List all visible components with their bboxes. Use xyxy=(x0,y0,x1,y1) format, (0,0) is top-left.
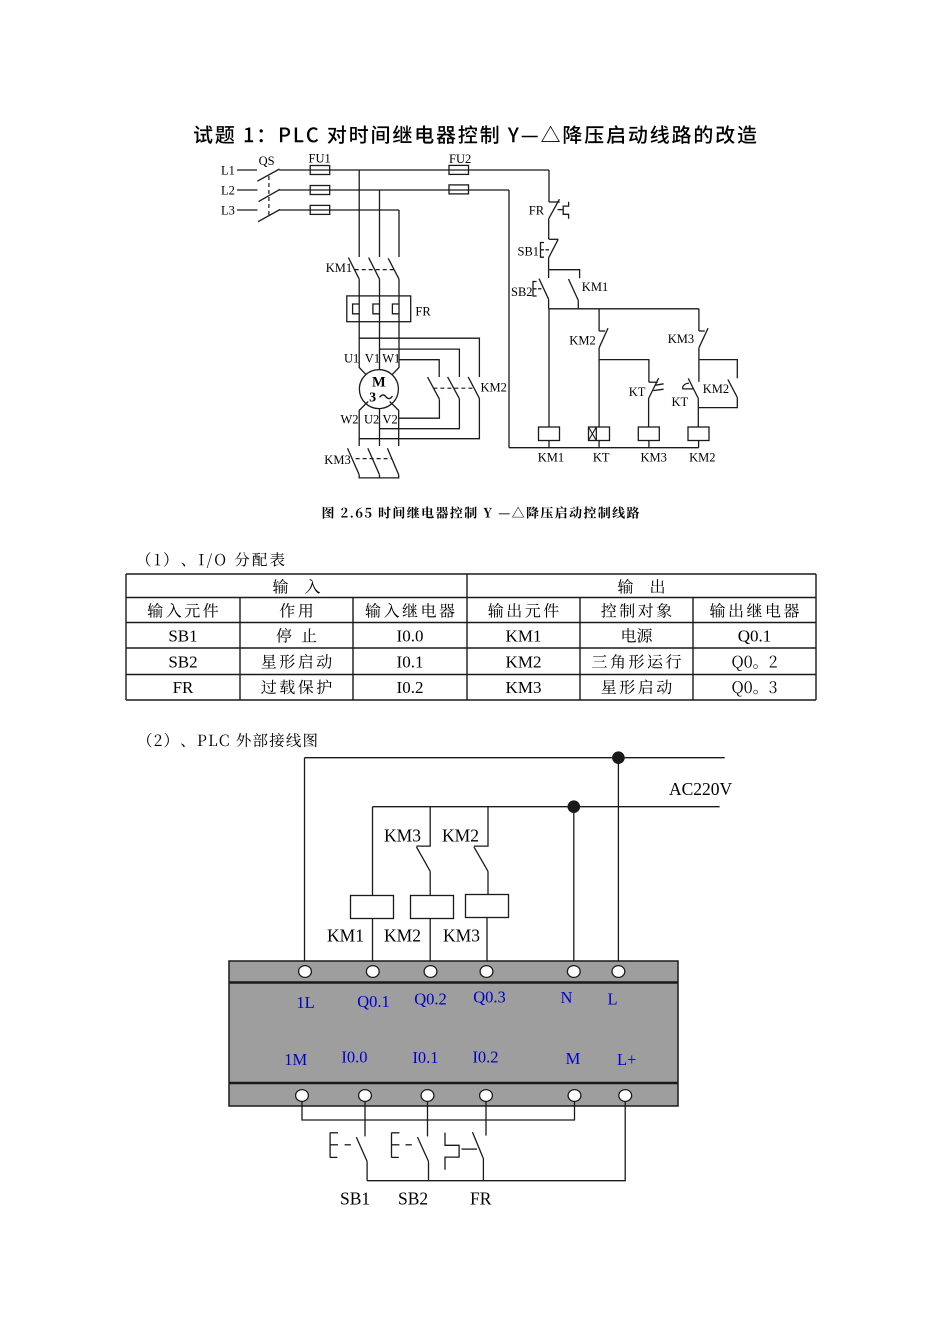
contactor KM1 main contact 3 xyxy=(388,258,399,279)
contactor KM2 delta contact right xyxy=(468,377,479,399)
wire U1 to KM2 right contact xyxy=(359,338,479,377)
wire KM2 middle contact to U2 xyxy=(380,399,460,429)
wire KM2 coil to rail xyxy=(698,441,700,448)
start button SB2 lead xyxy=(548,270,550,278)
wire L2 drop to KM1 xyxy=(379,190,381,257)
wire V1 to KM2 middle contact xyxy=(380,349,460,377)
overload FR input blade xyxy=(473,1132,484,1158)
svg-text:KT: KT xyxy=(672,395,689,409)
svg-text:SB2: SB2 xyxy=(511,285,533,299)
wire I0.0 lead xyxy=(364,1101,366,1136)
wire V2 out of motor xyxy=(390,401,399,446)
time relay KT delay mark 1 xyxy=(656,384,664,385)
wire W1 to KM2 left contact xyxy=(399,360,439,377)
button SB1 link dash xyxy=(345,1144,351,1146)
svg-text:L3: L3 xyxy=(221,203,235,217)
svg-text:KM3: KM3 xyxy=(384,826,421,846)
PLC top terminal 1 xyxy=(299,966,312,978)
wire KM3 NC down xyxy=(698,348,700,382)
svg-text:1L: 1L xyxy=(296,993,314,1012)
svg-text:KM1: KM1 xyxy=(326,261,352,275)
wire I0.2 lead xyxy=(485,1101,487,1136)
wire KM2 coil to Q0.2 xyxy=(429,919,431,967)
wire junction to KM1 aux xyxy=(549,270,580,279)
svg-text:KM1: KM1 xyxy=(582,280,608,294)
start button SB2 actuator xyxy=(533,282,537,297)
svg-text:I0.2: I0.2 xyxy=(472,1048,498,1067)
wire SB2 to rail xyxy=(548,299,550,309)
wire AC N line xyxy=(373,806,720,808)
wire L3 to QS xyxy=(237,209,258,211)
fuse FU1 phase L2 xyxy=(310,186,330,195)
wire control hot drop xyxy=(548,170,550,202)
wire KM1 to FR phase3 xyxy=(398,279,400,345)
svg-text:3: 3 xyxy=(369,391,376,406)
table cell r3c2 xyxy=(261,679,331,694)
svg-text:U1: U1 xyxy=(344,352,359,366)
table header output xyxy=(618,579,664,594)
svg-text:KM2: KM2 xyxy=(689,451,715,465)
wire W2 out of motor xyxy=(359,401,368,446)
svg-text:KM2: KM2 xyxy=(442,826,479,846)
table cell r3c5 xyxy=(601,679,671,694)
fuse FU1 phase L3 xyxy=(310,205,330,214)
wire KT coil to rail xyxy=(598,441,600,448)
stop button SB1 tick xyxy=(549,238,558,240)
interlock KM3 lead xyxy=(416,807,430,846)
svg-text:KM3: KM3 xyxy=(641,451,667,465)
svg-text:L+: L+ xyxy=(617,1050,636,1069)
svg-text:Q0.2: Q0.2 xyxy=(414,990,447,1009)
coil KM1 (PLC) xyxy=(351,896,394,919)
svg-text:KM1: KM1 xyxy=(506,627,542,646)
interlock KM2 lead xyxy=(474,807,488,846)
svg-text:I0.2: I0.2 xyxy=(397,678,424,697)
svg-text:SB1: SB1 xyxy=(168,627,197,646)
svg-text:FR: FR xyxy=(470,1189,492,1209)
wire KM1 to FR phase2 xyxy=(379,279,381,345)
stop button SB1 link dash xyxy=(546,249,550,251)
wire U2 out of motor xyxy=(379,409,381,446)
svg-text:M: M xyxy=(566,1049,581,1068)
wire L3 drop to KM1 xyxy=(398,210,400,257)
contactor KM2 NC blade xyxy=(599,328,608,348)
svg-text:KM3: KM3 xyxy=(443,926,480,946)
coil KM2 xyxy=(688,427,709,441)
button SB2 blade xyxy=(418,1137,429,1161)
svg-text:KM1: KM1 xyxy=(538,451,564,465)
wire branch to KT contact xyxy=(599,360,649,383)
wire KM1 to FR phase1 xyxy=(358,279,360,345)
table cell r2c5 xyxy=(592,654,681,669)
wire KM2 left contact to V2 xyxy=(399,399,440,418)
svg-text:SB1: SB1 xyxy=(518,245,540,259)
junction dot L xyxy=(612,751,625,764)
wire rail to KM1 coil xyxy=(548,309,550,427)
figure caption xyxy=(323,506,640,518)
start button SB2 blade xyxy=(539,279,549,300)
svg-text:FU1: FU1 xyxy=(309,152,331,166)
svg-text:KM2: KM2 xyxy=(481,380,507,394)
overload contact FR tick xyxy=(549,201,560,203)
time relay KT NC delayed blade xyxy=(649,378,659,398)
svg-text:I0.1: I0.1 xyxy=(397,653,424,672)
table col header 1 xyxy=(148,603,219,618)
svg-text:KM2: KM2 xyxy=(506,653,542,672)
svg-text:W1: W1 xyxy=(382,352,400,366)
contactor KM1 main contact 2 xyxy=(369,258,380,280)
control rail 1 xyxy=(549,308,699,310)
coil KT cross 1 xyxy=(589,427,597,441)
stop button SB1 actuator xyxy=(541,243,545,258)
wire KM3 coil to Q0.3 xyxy=(486,918,488,967)
wire KM1 coil to Q0.1 xyxy=(372,919,374,967)
svg-text:I0.0: I0.0 xyxy=(341,1048,367,1067)
wire L1 to QS xyxy=(237,169,257,171)
wire L2 to QS xyxy=(237,189,258,191)
wire L1 bus to control xyxy=(279,169,549,171)
wire SB2 to bus xyxy=(428,1161,430,1180)
wire 1M to M bus xyxy=(302,1101,575,1120)
wire control neutral drop xyxy=(508,190,510,448)
wire KM3 blade to KM2 coil xyxy=(429,871,431,895)
contactor KM1 linkage (dashed) xyxy=(355,269,395,271)
switch QS blade phase L2 xyxy=(259,189,280,201)
coil KM2 (PLC) xyxy=(411,896,454,919)
contactor KM2 delta contact left xyxy=(428,377,440,399)
svg-text:FR: FR xyxy=(529,204,545,218)
junction dot N xyxy=(568,800,581,813)
wire L2 bus to control xyxy=(279,189,509,191)
wire L3 bus xyxy=(279,209,399,211)
svg-text:KT: KT xyxy=(593,451,610,465)
start button SB2 link dash xyxy=(538,288,542,290)
table cell r1c2 xyxy=(276,628,316,643)
overload contact FR link dash xyxy=(558,209,563,211)
svg-text:KM3: KM3 xyxy=(324,453,350,467)
table col header 6 xyxy=(710,603,799,618)
svg-text:KT: KT xyxy=(629,385,646,399)
wire N riser xyxy=(573,807,575,966)
PLC top terminal 2 xyxy=(366,966,379,978)
table cell r1c5 xyxy=(623,628,652,643)
table col header 5 xyxy=(601,603,671,618)
contactor KM1 main contact 1 xyxy=(348,258,359,280)
svg-text:U2: U2 xyxy=(364,413,379,427)
table cell r3c6 xyxy=(732,681,776,696)
coil KM3 xyxy=(638,427,659,441)
PLC top terminal 3 xyxy=(424,966,437,978)
svg-text:Q0.3: Q0.3 xyxy=(473,988,506,1007)
wire KM2 selfhold branch bottom xyxy=(698,397,737,408)
wire V1 into motor xyxy=(379,345,381,370)
wire KM2 NC to KT coil xyxy=(598,348,600,427)
overload FR link dash xyxy=(462,1148,478,1150)
contactor KM3 star contact 3 xyxy=(387,448,398,475)
table col header 3 xyxy=(365,603,454,618)
svg-text:I0.1: I0.1 xyxy=(412,1048,438,1067)
coil KM3 (PLC) xyxy=(466,895,509,918)
PLC bottom separator xyxy=(229,1082,678,1085)
contactor KM3 star contact 2 xyxy=(368,448,380,475)
wire KM2 right contact to W2 xyxy=(359,398,479,438)
fuse FU2 lower (L2) xyxy=(449,185,469,194)
svg-text:KM1: KM1 xyxy=(327,926,364,946)
svg-text:SB1: SB1 xyxy=(340,1189,370,1209)
coil KT divider xyxy=(595,427,597,441)
motor M circle xyxy=(359,370,398,409)
table col header 2 xyxy=(280,603,312,618)
contactor KM2 NC tick xyxy=(599,330,605,332)
wire KM2 blade to KM3 coil xyxy=(487,871,489,894)
contactor KM3 NC lead xyxy=(698,309,700,331)
contactor KM2 NC lead xyxy=(598,309,600,331)
switch QS blade phase L3 xyxy=(258,210,280,222)
overload relay FR heater 2 xyxy=(373,304,380,314)
section heading 2 xyxy=(147,733,317,748)
svg-text:1M: 1M xyxy=(284,1050,307,1069)
svg-text:SB2: SB2 xyxy=(398,1189,428,1209)
overload FR input symbol xyxy=(445,1133,459,1170)
overload contact FR heat symbol xyxy=(563,202,568,219)
overload relay FR heater 3 xyxy=(392,304,399,314)
svg-text:Q0.1: Q0.1 xyxy=(738,627,772,646)
time relay KT NO delay arc xyxy=(682,383,694,389)
svg-text:L2: L2 xyxy=(221,183,235,197)
button SB2 link dash xyxy=(406,1144,412,1146)
svg-text:SB2: SB2 xyxy=(168,653,197,672)
coil KT cross 2 xyxy=(589,427,597,441)
control rail 2 (bottom) xyxy=(509,447,699,449)
wire KT contact to KM3 coil xyxy=(648,399,650,428)
PLC bottom terminal 2 xyxy=(359,1090,372,1102)
PLC top separator xyxy=(229,981,678,984)
star stub 2 xyxy=(379,475,381,478)
fuse FU2 upper (L1) xyxy=(449,165,469,174)
wire FR to SB1 xyxy=(548,219,550,240)
contactor KM2 delta linkage (dashed) xyxy=(433,387,473,389)
switch QS linkage (dashed) xyxy=(268,176,270,216)
wire L1 drop to KM1 xyxy=(358,170,360,257)
wire KM1 aux to rail xyxy=(577,300,579,308)
PLC top terminal 4 xyxy=(480,966,493,978)
wire AC L line xyxy=(305,757,725,759)
wire U1 bend into motor xyxy=(359,345,368,377)
table col header 4 xyxy=(488,603,559,618)
table cell r2c6 xyxy=(732,656,776,671)
svg-text:KM2: KM2 xyxy=(703,382,729,396)
button SB2 actuator E xyxy=(392,1133,400,1158)
svg-text:W2: W2 xyxy=(341,413,359,427)
svg-text:N: N xyxy=(561,988,573,1007)
svg-text:FU2: FU2 xyxy=(449,152,471,166)
fuse FU1 phase L1 xyxy=(310,166,330,175)
svg-text:Q0.1: Q0.1 xyxy=(357,992,390,1011)
contactor KM2 delta contact middle xyxy=(448,377,460,399)
svg-text:KM2: KM2 xyxy=(384,926,421,946)
wire KT NO to KM2 coil xyxy=(697,399,699,428)
button SB1 blade xyxy=(356,1137,367,1161)
contactor KM3 linkage (dashed) xyxy=(356,458,392,460)
wire L riser xyxy=(617,758,619,966)
svg-text:KM3: KM3 xyxy=(668,332,694,346)
wire KM2 selfhold branch top xyxy=(699,360,737,379)
coil KM1 xyxy=(539,427,560,441)
wire to KM1 coil xyxy=(372,807,374,896)
svg-text:V1: V1 xyxy=(365,352,380,366)
overload relay FR heater 1 xyxy=(353,304,360,314)
PLC top terminal 6 xyxy=(612,966,625,978)
section heading 1 xyxy=(146,552,284,568)
PLC bottom terminal 4 xyxy=(480,1090,493,1102)
svg-text:V2: V2 xyxy=(383,413,398,427)
switch QS blade phase L1 xyxy=(257,169,279,181)
svg-text:FR: FR xyxy=(173,678,194,697)
PLC bottom terminal 6 xyxy=(619,1090,632,1102)
wire FR to bus xyxy=(482,1158,484,1181)
PLC body xyxy=(229,961,678,1106)
wire KM3 coil to rail xyxy=(648,441,650,448)
PLC bottom terminal 3 xyxy=(421,1090,434,1102)
wire I0.1 lead xyxy=(427,1101,429,1136)
svg-text:L: L xyxy=(607,990,617,1009)
PLC bottom terminal 1 xyxy=(296,1090,309,1102)
IO table grid xyxy=(126,574,816,700)
PLC bottom terminal 5 xyxy=(568,1090,581,1102)
wire 1L riser xyxy=(304,758,306,966)
svg-text:AC220V: AC220V xyxy=(669,779,733,799)
PLC top terminal 5 xyxy=(567,966,580,978)
contactor KM3 star contact 1 xyxy=(348,448,360,475)
stop button SB1 actuator mid xyxy=(541,249,545,251)
coil KT xyxy=(589,427,610,441)
svg-text:I0.0: I0.0 xyxy=(397,627,424,646)
contactor KM3 NC blade xyxy=(699,328,708,348)
contactor KM1 aux contact blade xyxy=(569,279,579,300)
interlock KM3 blade xyxy=(416,847,430,872)
wire bottom bus to L+ xyxy=(367,1101,625,1181)
stop button SB1 blade xyxy=(549,239,559,257)
contactor KM3 NC tick xyxy=(699,330,705,332)
svg-text:KM3: KM3 xyxy=(506,678,542,697)
time relay KT NO delayed blade xyxy=(688,378,698,398)
document title xyxy=(194,125,757,144)
svg-text:QS: QS xyxy=(259,154,275,168)
wire SB1 to junction xyxy=(548,258,550,270)
wire KM1 coil to rail xyxy=(548,441,550,448)
table header input xyxy=(273,579,320,594)
wire SB1 to bus xyxy=(366,1161,368,1180)
contactor KM2 selfhold blade xyxy=(728,380,737,398)
svg-text:FR: FR xyxy=(415,305,431,319)
interlock KM2 blade xyxy=(474,847,488,872)
wire W1 bend into motor xyxy=(390,345,399,377)
start button SB2 actuator mid xyxy=(533,288,537,290)
svg-text:L1: L1 xyxy=(221,163,235,177)
time relay KT NC delayed tick xyxy=(649,381,658,383)
svg-text:KM2: KM2 xyxy=(569,334,595,348)
table cell r2c2 xyxy=(261,654,331,669)
button SB1 actuator E xyxy=(330,1133,338,1158)
overload contact FR blade xyxy=(549,199,560,219)
svg-text:M: M xyxy=(372,375,386,391)
star point bar xyxy=(359,475,399,478)
overload relay FR body xyxy=(347,296,411,322)
time relay KT delay mark 2 xyxy=(653,389,663,390)
